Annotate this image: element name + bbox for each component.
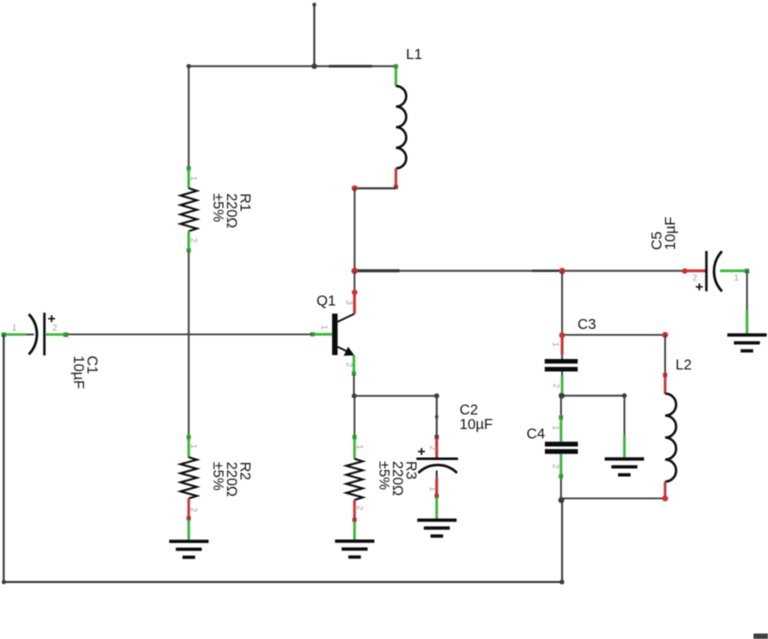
wire top horizontal — [187, 64, 396, 68]
svg-text:1: 1 — [734, 273, 739, 283]
resistor R1 — [181, 166, 253, 252]
wire junction to mid ground — [562, 393, 627, 435]
ground below R2 — [169, 520, 208, 559]
svg-text:±5%: ±5% — [375, 461, 391, 490]
svg-text:10µF: 10µF — [460, 417, 493, 433]
resistor R2 — [181, 435, 253, 521]
node C3-C4 junction — [559, 393, 565, 399]
inductor L2 — [663, 335, 692, 499]
node junction top — [312, 63, 318, 69]
svg-text:1: 1 — [355, 445, 365, 450]
svg-text:±5%: ±5% — [210, 193, 226, 222]
wire emitter junction to C2 — [354, 393, 439, 439]
svg-text:L1: L1 — [406, 47, 422, 63]
wire L1 bottom horizontal — [355, 187, 396, 189]
capacitor C5 — [650, 217, 750, 292]
transistor Q1 — [310, 271, 357, 376]
wire left vertical — [3, 335, 5, 583]
capacitor C1 — [1, 313, 99, 389]
wire emitter to junction — [353, 375, 355, 396]
wire rail to C5 — [682, 268, 688, 274]
svg-text:3: 3 — [345, 300, 355, 305]
ground below C2 — [417, 497, 456, 538]
wire main horizontal rail — [355, 270, 685, 272]
node right rail junction — [559, 268, 565, 274]
svg-text:10µF: 10µF — [663, 217, 679, 250]
node L2 bottom corner — [662, 495, 668, 501]
svg-text:2: 2 — [428, 446, 438, 451]
svg-text:2: 2 — [53, 323, 58, 333]
wire base horizontal — [67, 333, 312, 335]
svg-text:C4: C4 — [527, 427, 546, 443]
svg-text:2: 2 — [355, 506, 365, 511]
wire R1 to R2 vertical — [188, 252, 190, 437]
wire bottom rail — [4, 581, 562, 583]
svg-text:1: 1 — [551, 342, 561, 347]
wire C3 row horizontal — [562, 334, 665, 336]
ground below R3 — [335, 521, 374, 559]
capacitor C2 — [416, 402, 493, 498]
wire down to R3 — [354, 396, 356, 436]
svg-text:2: 2 — [693, 273, 698, 283]
ground below C5 — [727, 310, 766, 353]
svg-text:C3: C3 — [578, 317, 597, 333]
svg-text:L2: L2 — [676, 358, 692, 374]
node L2 top corner — [662, 332, 668, 338]
corner artifact bottom-right — [754, 634, 768, 639]
ground middle — [605, 436, 644, 477]
wire bottom row to L2 — [561, 497, 665, 499]
svg-text:2: 2 — [189, 238, 199, 243]
capacitor C3 — [545, 317, 596, 393]
inductor L1 — [394, 47, 422, 189]
svg-text:1: 1 — [320, 325, 330, 330]
svg-text:2: 2 — [551, 464, 561, 469]
svg-text:±5%: ±5% — [210, 462, 226, 491]
svg-text:Q1: Q1 — [317, 294, 336, 310]
wire top vertical — [312, 3, 316, 66]
wire right rail down — [561, 271, 563, 335]
svg-text:2: 2 — [551, 384, 561, 389]
resistor R3 — [346, 435, 418, 522]
node L1-collector corner — [352, 185, 358, 191]
node emitter junction — [352, 393, 357, 398]
svg-text:1: 1 — [551, 426, 561, 431]
node C3 junction — [559, 332, 565, 338]
svg-text:1: 1 — [428, 487, 438, 492]
svg-text:1: 1 — [12, 323, 17, 333]
wire C5 to ground — [746, 271, 748, 310]
svg-text:2: 2 — [345, 363, 355, 368]
node C4 bottom junction — [558, 497, 564, 503]
node collector junction — [351, 268, 357, 274]
wire collector vertical — [354, 188, 356, 270]
svg-text:2: 2 — [189, 508, 199, 513]
wire R1 top lead — [188, 66, 190, 168]
capacitor C4 — [527, 396, 578, 501]
svg-text:1: 1 — [189, 176, 199, 181]
wire C4 junction to bottom rail — [561, 500, 563, 582]
svg-text:10µF: 10µF — [70, 356, 86, 389]
svg-text:1: 1 — [189, 444, 199, 449]
